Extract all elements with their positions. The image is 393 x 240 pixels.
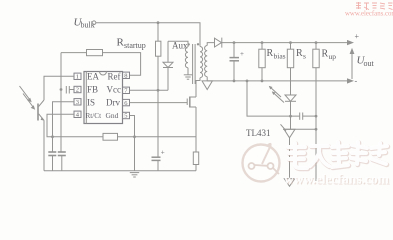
label Uout [357,55,375,69]
resistor Rstartup (horizontal box) [87,50,103,56]
diode opto LED [285,95,296,101]
resistor Rt (horizontal box) [103,133,118,140]
diode aux rectifier [167,41,169,62]
wire aux top [168,41,188,47]
svg-text:2: 2 [76,87,79,94]
svg-text:Rt/Ct: Rt/Ct [86,112,102,120]
winding secondary [205,46,208,77]
svg-text:8: 8 [124,73,127,80]
wire pin5 Gnd down [130,116,135,171]
arrow secondary return (open) [202,81,212,90]
transistor opto phototransistor [37,104,39,121]
capacitor FB series (small) [65,86,67,94]
watermark chinese characters (drawn strokes) [289,143,388,169]
junction IS/RtCt [51,135,54,138]
svg-text:bias: bias [274,51,286,60]
svg-text:5: 5 [124,113,127,120]
resistor Rbias [261,43,263,50]
wire FB cap to pin2 [69,89,74,91]
mosfet Q1 [186,99,188,106]
wire startup tap down [157,23,159,42]
svg-text:3: 3 [76,99,79,106]
wire secondary bottom [206,77,208,81]
arrow Uout indicator [351,52,353,79]
svg-text:Drv: Drv [106,98,120,108]
arrow TL431 anode return (open) [284,179,294,187]
svg-text:+: + [355,32,360,41]
wire output bottom rail [207,80,348,82]
pin 3 box [74,99,81,105]
junction Vcc wire taps [157,89,160,92]
label Aux [172,40,188,50]
label Rs [296,48,306,60]
wire primary bottom to mosfet drain [196,78,200,97]
IC pin labels [86,72,122,120]
capacitor C1 plates [48,151,56,153]
wire comp network [247,81,299,116]
svg-text:R: R [267,48,274,59]
svg-text:Ref: Ref [108,72,121,82]
junction gnd tap [133,135,136,138]
pin 6 box [123,99,130,105]
winding primary [200,47,203,78]
light arrows into phototransistor [20,86,31,100]
wire bottom primary rail [44,170,196,172]
capacitor comp [299,113,301,120]
node Ubulk label [74,17,95,30]
IC U1 body [84,72,123,124]
IC U1 inner left double line [85,72,87,124]
resistor Rsense (vertical box) [193,152,198,165]
wire pin4 RtCt [47,114,103,137]
arrow output minus terminal [347,78,354,83]
wire Rsense to rail [195,165,197,171]
transformer core [192,44,194,84]
resistor Rs [290,43,292,50]
wire TL431 cathode to divider [296,128,316,130]
svg-text:www.elecfans.com: www.elecfans.com [284,172,390,187]
label TL431 [246,128,271,138]
polarity dot primary [197,43,199,45]
junction startup-resistor tap [157,21,160,24]
wire opto emitter down [43,120,45,171]
svg-text:out: out [364,59,375,68]
pin 2 box [74,86,81,92]
svg-text:R: R [322,49,329,60]
winding aux [185,47,188,68]
wire Ubulk top rail [96,23,200,47]
wire aux bottom [187,68,189,75]
capacitor output electrolytic [233,43,235,58]
svg-text:1: 1 [76,74,79,81]
svg-text:FB: FB [87,85,98,95]
svg-text:+: + [161,149,165,157]
ground primary [130,172,139,174]
arrow output plus terminal [347,40,354,45]
svg-text:TL431: TL431 [246,128,271,138]
svg-text:R: R [296,48,303,59]
resistor Rup [315,43,317,50]
watermark url [285,173,391,188]
svg-text:up: up [329,52,337,61]
capacitor C2 plates [58,151,66,153]
mosfet Q1 gate wire from pin6 Drv [130,102,188,104]
pin 5 box [123,112,130,118]
wire TL431 anode down [289,138,291,179]
wire pin3 IS to cap C1 [53,102,75,152]
wire pin1 EA to opto collector [44,76,74,100]
svg-text:IS: IS [87,98,95,108]
pin 8 box [123,72,130,78]
regulator TL431 [283,128,296,130]
pin 4 box [74,111,81,117]
wire Rs to opto LED [290,68,292,95]
pin numbers [76,73,129,120]
watermark logo circle [243,144,280,182]
wire output top rail [222,42,348,44]
node Ubulk terminal circle [92,21,96,25]
wire mosfet source to Rsense [195,107,197,152]
wire left rail from Rstartup to cap C2 [60,53,62,152]
svg-text:Vcc: Vcc [107,85,122,95]
pin 1 box [74,73,81,79]
pin 7 box [123,87,130,93]
wire Rt to sense node [118,136,197,138]
light arrows out of LED [270,87,282,98]
wire secondary top to diode [207,43,214,46]
diode output rectifier [215,38,222,47]
svg-text:www.elecfans.com: www.elecfans.com [345,11,393,18]
wire LED cathode to TL431 [290,101,292,129]
label Rstartup [117,37,146,51]
watermark top-right [356,2,393,10]
wire divider down [315,68,317,181]
svg-text:s: s [303,51,306,60]
svg-text:+: + [240,50,244,58]
wire resistor to Vcc rail and Vcc cap [157,56,159,157]
label Rbias [267,48,286,60]
label Rup [322,49,337,61]
svg-text:Gnd: Gnd [106,111,119,120]
svg-text:-: - [355,77,358,86]
resistor startup-top (vertical box) [156,41,161,56]
capacitor Vcc electrolytic [152,156,161,158]
ground aux [184,74,192,76]
svg-text:EA: EA [87,72,99,82]
junction FB tap [60,88,63,91]
wire pin7 Vcc to aux diode [130,89,169,91]
wire Rstartup left [61,52,87,54]
svg-text:startup: startup [124,41,146,50]
IC U1 notch [100,72,107,76]
polarity dot aux [188,43,190,45]
wire Rstartup right to pin8 [103,53,141,76]
